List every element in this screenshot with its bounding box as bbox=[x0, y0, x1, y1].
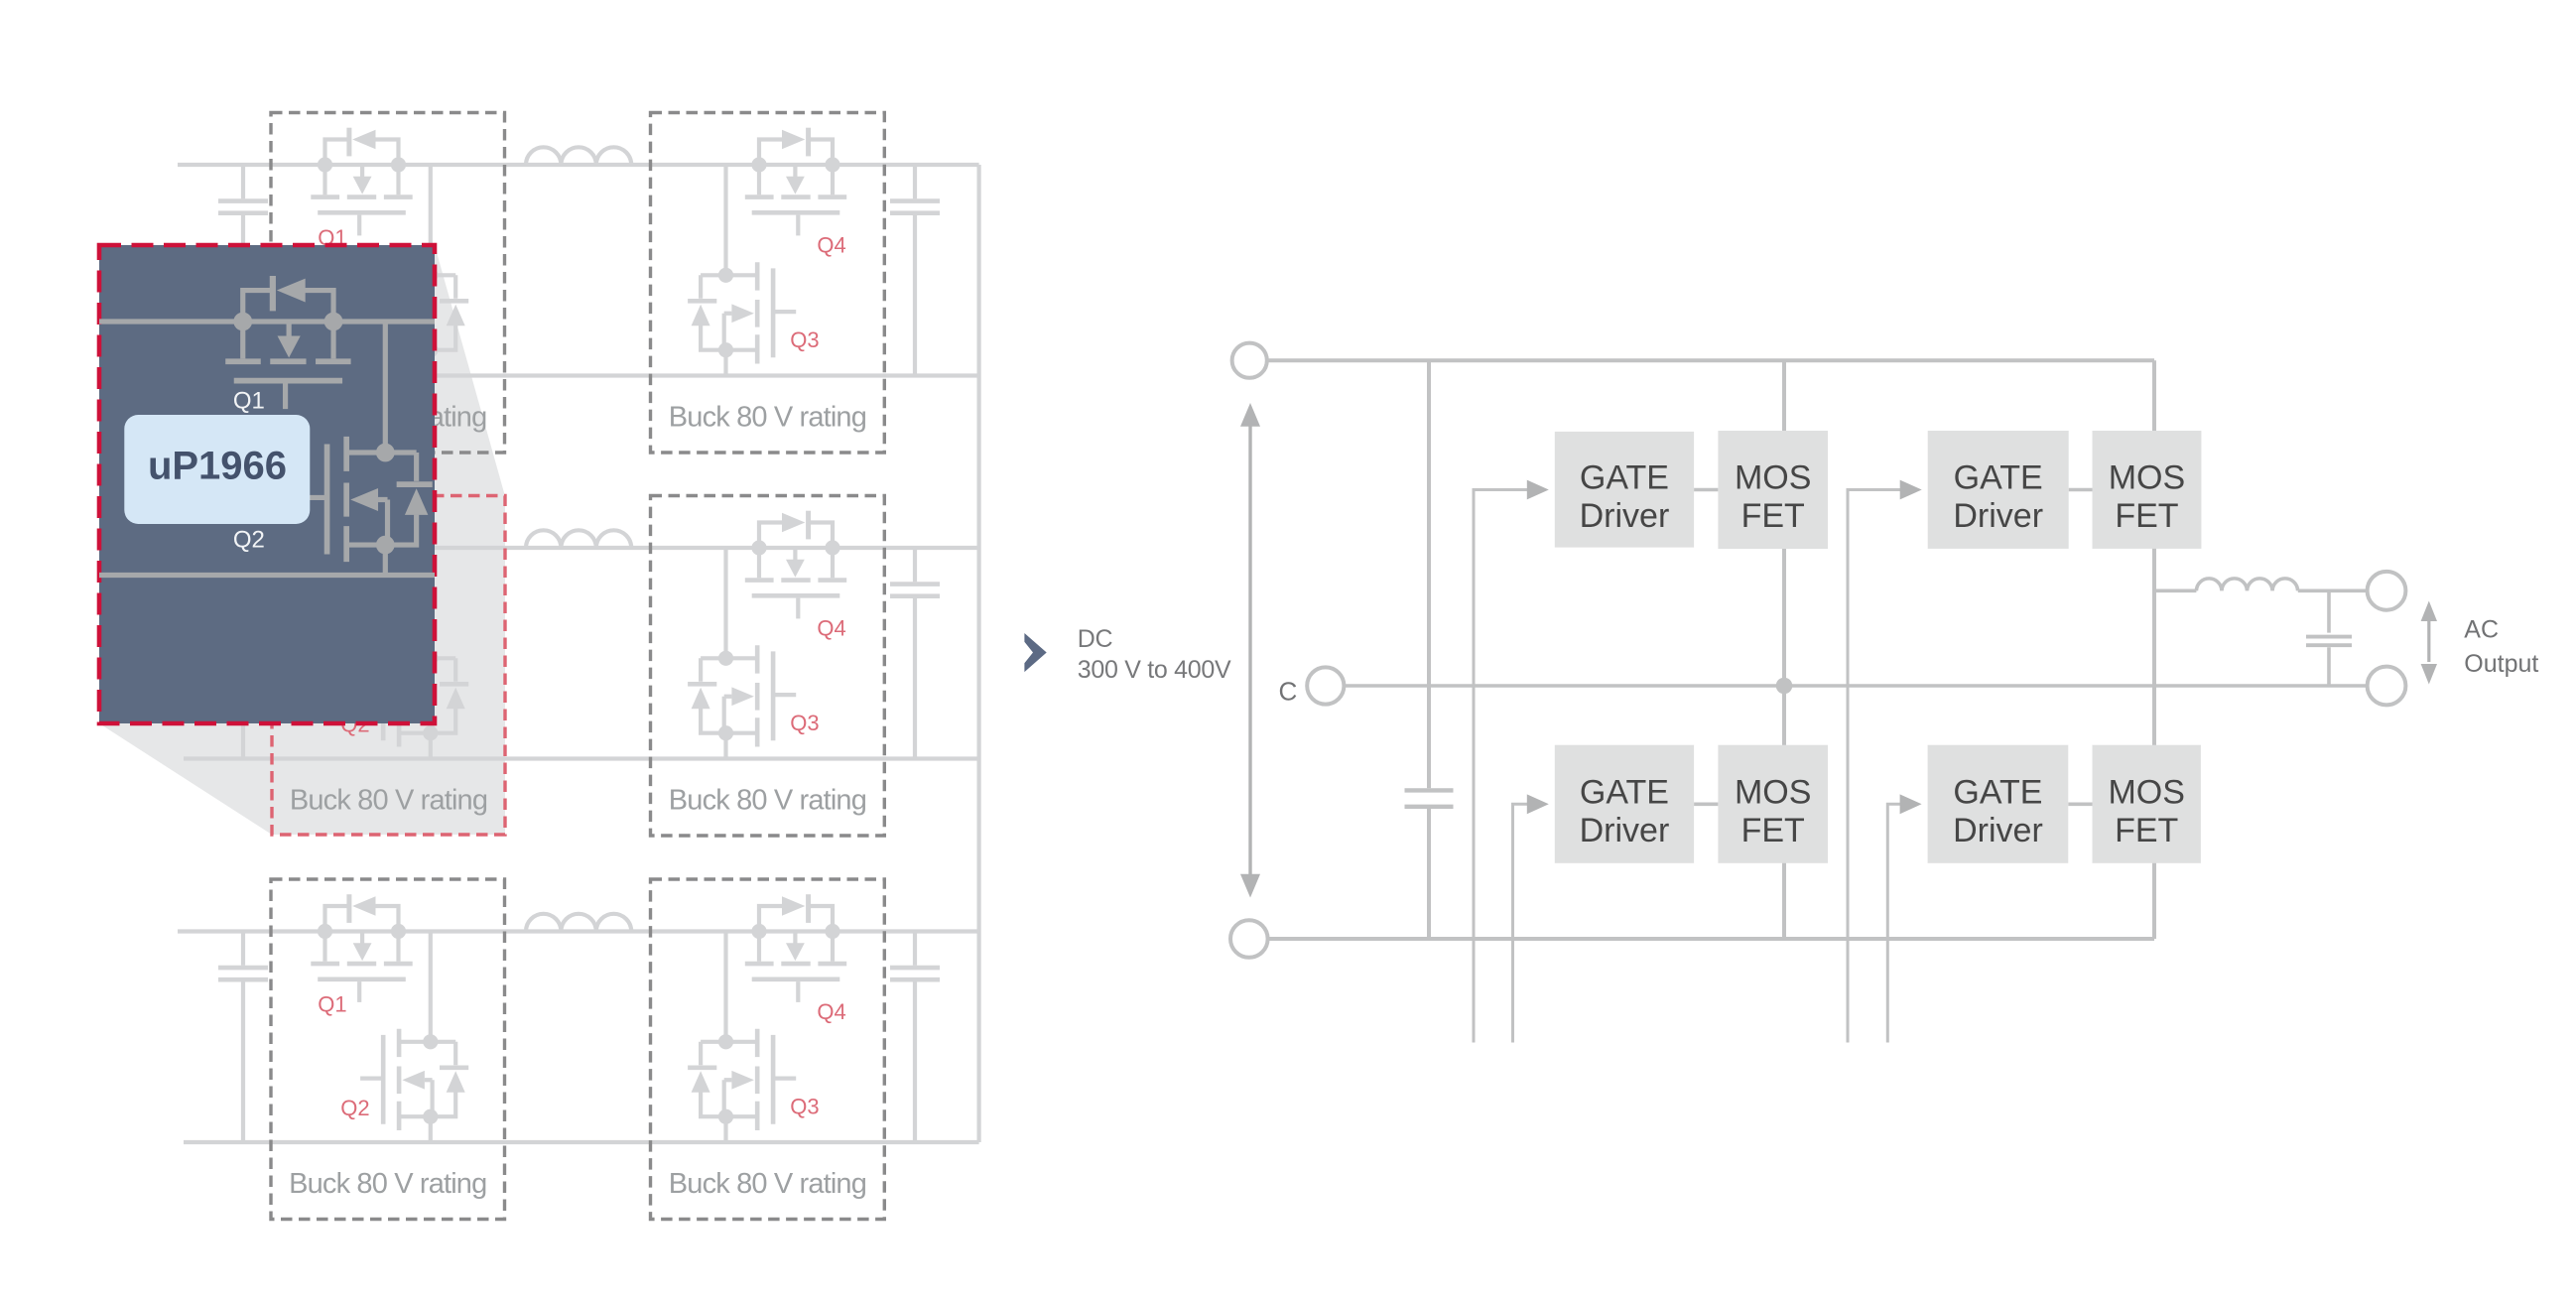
capacitor: row 3 output cap bbox=[890, 932, 940, 1143]
transistor Q3 row 1 (low-side MOSFET, right cell) bbox=[688, 262, 796, 363]
arrow: DC voltage measure double arrow bbox=[1248, 424, 1251, 877]
Buck cell dashed box row 3 right bbox=[651, 879, 885, 1220]
svg-text:FET: FET bbox=[1741, 497, 1805, 535]
svg-text:Q3: Q3 bbox=[790, 327, 819, 352]
svg-text:Output: Output bbox=[2464, 650, 2538, 678]
wire: GATE Driver 1 to MOSFET 1 bbox=[1694, 488, 1718, 492]
capacitor: row 2 input cap bbox=[218, 548, 268, 759]
block: GATE Driver 1 bbox=[1555, 432, 1694, 548]
capacitor: output filter cap bbox=[2327, 590, 2331, 686]
svg-text:Driver: Driver bbox=[1953, 812, 2043, 849]
svg-text:GATE: GATE bbox=[1580, 458, 1669, 496]
capacitor: DC link cap bbox=[1427, 360, 1431, 939]
svg-text:Driver: Driver bbox=[1953, 497, 2043, 535]
wire+arrow: gate signal into GATE Driver 4 bbox=[1887, 804, 1901, 1042]
zoom beam from Buck cell to uP1966 overlay bbox=[99, 245, 505, 835]
svg-text:FET: FET bbox=[1741, 812, 1805, 849]
wire: overlay bottom rail bbox=[99, 573, 435, 578]
wire: GATE Driver 2 to MOSFET 2 bbox=[2069, 488, 2093, 492]
terminal: AC output bottom bbox=[2368, 667, 2406, 706]
svg-text:Q1: Q1 bbox=[318, 992, 346, 1017]
wire: row 2 input/output line bbox=[178, 546, 979, 550]
block: GATE Driver 4 bbox=[1928, 745, 2069, 863]
svg-text:Q2: Q2 bbox=[233, 527, 265, 554]
transistor Q4 row 3 (high-side MOSFET, right cell) bbox=[745, 894, 846, 1002]
terminal: C midpoint bbox=[1307, 667, 1344, 704]
inductor: output filter bbox=[2196, 579, 2297, 590]
svg-text:Q4: Q4 bbox=[817, 233, 845, 258]
transistor Q4 row 2 (high-side MOSFET, right cell) bbox=[745, 511, 846, 619]
wire: left bridge leg (MOSFET 1/3 vertical) bbox=[1782, 360, 1786, 939]
transistor Q2 row 1 (low-side MOSFET, left cell) bbox=[360, 262, 468, 363]
svg-text:Q3: Q3 bbox=[790, 711, 819, 735]
wire: series stack right rail bbox=[976, 165, 980, 1142]
wire: row 3 bottom return rail bbox=[184, 1140, 979, 1144]
svg-text:FET: FET bbox=[2115, 497, 2178, 535]
svg-text:GATE: GATE bbox=[1953, 773, 2042, 811]
wire: row 1 bottom return rail bbox=[184, 373, 979, 377]
wire: DC- bottom rail bbox=[1268, 937, 2154, 941]
svg-text:MOS: MOS bbox=[1735, 773, 1811, 811]
wire+arrow: gate signal into GATE Driver 3 bbox=[1513, 804, 1529, 1042]
transistor Q3 row 3 (low-side MOSFET, right cell) bbox=[688, 1029, 796, 1130]
uP1966 overlay panel bbox=[99, 245, 435, 723]
capacitor: row 2 output cap bbox=[890, 548, 940, 759]
wire: row 3 left cell switch-node drop bbox=[429, 932, 433, 1143]
svg-text:Buck 80 V rating: Buck 80 V rating bbox=[669, 785, 866, 817]
block: GATE Driver 2 bbox=[1928, 431, 2069, 549]
svg-text:uP1966: uP1966 bbox=[148, 445, 287, 488]
wire: row 1 right cell switch-node drop bbox=[723, 165, 727, 376]
Buck cell red dashed box row 2 left (zoom source) bbox=[272, 496, 505, 836]
svg-text:GATE: GATE bbox=[1580, 773, 1669, 811]
svg-text:Driver: Driver bbox=[1580, 812, 1670, 849]
capacitor: row 1 output cap bbox=[890, 165, 940, 376]
svg-text:FET: FET bbox=[2115, 812, 2178, 849]
svg-text:Buck 80 V rating: Buck 80 V rating bbox=[289, 1168, 486, 1200]
wire: row 2 right cell switch-node drop bbox=[723, 548, 727, 759]
transistor Q2 row 2 (low-side MOSFET, left cell) bbox=[360, 645, 468, 746]
wire: overlay switch-node drop bbox=[383, 322, 388, 576]
inductor: row 1 buck inductor bbox=[526, 147, 631, 165]
Buck cell dashed box row 1 left bbox=[271, 113, 505, 454]
transistor Q2 row 3 (low-side MOSFET, left cell) bbox=[360, 1029, 468, 1130]
transistor Q1 row 2 (high-side MOSFET, left cell) bbox=[311, 511, 412, 619]
block: MOSFET 4 bbox=[2093, 745, 2201, 863]
Buck cell dashed box row 2 right bbox=[651, 496, 885, 837]
svg-text:DC: DC bbox=[1078, 625, 1113, 653]
transistor Q1 row 3 (high-side MOSFET, left cell) bbox=[311, 894, 412, 1002]
uP1966 device box bbox=[124, 415, 310, 524]
wire: row 2 left cell switch-node drop bbox=[429, 548, 433, 759]
wire: overlay input line bbox=[99, 319, 435, 324]
block: MOSFET 3 bbox=[1718, 745, 1828, 863]
arrow: AC output double arrow bbox=[2427, 619, 2430, 662]
svg-text:MOS: MOS bbox=[2109, 458, 2185, 496]
inductor: row 3 buck inductor bbox=[526, 914, 631, 932]
svg-text:Q1: Q1 bbox=[233, 388, 265, 415]
svg-text:AC: AC bbox=[2464, 616, 2499, 644]
svg-text:Q4: Q4 bbox=[817, 999, 845, 1024]
wire: row 3 input/output line bbox=[178, 929, 979, 933]
terminal: AC output top bbox=[2368, 572, 2406, 610]
svg-text:C: C bbox=[1279, 677, 1298, 707]
wire: DC+ top rail bbox=[1267, 358, 2154, 362]
transistor Q2 (overlay zoom, low-side) bbox=[299, 437, 433, 562]
wire: row 1 input/output line bbox=[178, 163, 979, 167]
node: mid-rail junction bbox=[1776, 678, 1793, 695]
block: MOSFET 2 bbox=[2093, 431, 2202, 549]
wire+arrow: gate signal into GATE Driver 1 bbox=[1474, 490, 1529, 1043]
svg-text:Q4: Q4 bbox=[817, 616, 845, 641]
Buck cell dashed box row 3 left bbox=[271, 879, 505, 1220]
arrow: navy chevron bbox=[1024, 633, 1046, 672]
transistor Q4 row 1 (high-side MOSFET, right cell) bbox=[745, 128, 846, 236]
svg-text:Buck 80 V rating: Buck 80 V rating bbox=[669, 402, 866, 434]
wire: output branch to filter bbox=[2154, 588, 2368, 592]
transistor Q1 (overlay zoom, high-side) bbox=[225, 276, 350, 409]
block: MOSFET 1 bbox=[1718, 431, 1828, 549]
terminal: DC+ input bbox=[1232, 343, 1267, 378]
wire: GATE Driver 4 to MOSFET 4 bbox=[2068, 802, 2092, 806]
wire: right bridge leg (MOSFET 2/4 vertical) bbox=[2152, 360, 2156, 939]
wire: row 1 left cell switch-node drop bbox=[429, 165, 433, 376]
svg-text:GATE: GATE bbox=[1954, 458, 2043, 496]
transistor Q1 row 1 (high-side MOSFET, left cell) bbox=[311, 128, 412, 236]
svg-text:Q3: Q3 bbox=[790, 1095, 819, 1119]
capacitor: row 1 input cap bbox=[218, 165, 268, 376]
Buck cell dashed box row 1 right bbox=[651, 113, 885, 454]
wire: GATE Driver 3 to MOSFET 3 bbox=[1694, 802, 1718, 806]
svg-text:Q2: Q2 bbox=[340, 1096, 369, 1120]
capacitor: row 3 input cap bbox=[218, 932, 268, 1143]
wire: row 2 bottom return rail bbox=[184, 756, 979, 760]
svg-text:Driver: Driver bbox=[1580, 497, 1670, 535]
transistor Q3 row 2 (low-side MOSFET, right cell) bbox=[688, 645, 796, 746]
inductor: row 2 buck inductor bbox=[526, 530, 631, 548]
block: GATE Driver 3 bbox=[1555, 745, 1694, 863]
svg-text:Buck 80 V rating: Buck 80 V rating bbox=[290, 785, 487, 817]
svg-text:300 V to 400V: 300 V to 400V bbox=[1078, 656, 1231, 684]
svg-text:MOS: MOS bbox=[2108, 773, 2184, 811]
wire: row 3 right cell switch-node drop bbox=[723, 932, 727, 1143]
svg-text:MOS: MOS bbox=[1735, 459, 1811, 497]
wire: mid rail from C terminal bbox=[1346, 684, 2368, 688]
terminal: DC- input bbox=[1230, 920, 1268, 958]
wire+arrow: gate signal into GATE Driver 2 bbox=[1848, 490, 1902, 1043]
svg-text:Buck 80 V rating: Buck 80 V rating bbox=[669, 1168, 866, 1200]
